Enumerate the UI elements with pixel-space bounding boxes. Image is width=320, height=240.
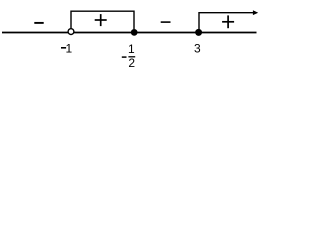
- label -1: [61, 41, 73, 55]
- filled dot at -1/2: [131, 29, 138, 36]
- svg-text:1: 1: [66, 41, 73, 55]
- label -1/2 (fraction): [122, 42, 136, 70]
- svg-text:2: 2: [128, 56, 135, 70]
- raised ray with arrow (interval x > 3): [199, 13, 254, 30]
- minus sign (interval -1/2 to 3): [161, 21, 171, 23]
- svg-text:1: 1: [128, 42, 135, 56]
- minus sign (interval x < -1): [34, 22, 43, 24]
- bracket over interval (-1, -1/2): [71, 11, 134, 29]
- plus sign (interval -1 to -1/2): [95, 14, 107, 26]
- open circle at -1: [68, 29, 74, 35]
- plus sign (interval x > 3): [222, 15, 234, 28]
- number line: [2, 32, 257, 34]
- filled dot at 3: [195, 29, 202, 36]
- svg-text:3: 3: [194, 41, 201, 55]
- arrowhead: [253, 10, 258, 15]
